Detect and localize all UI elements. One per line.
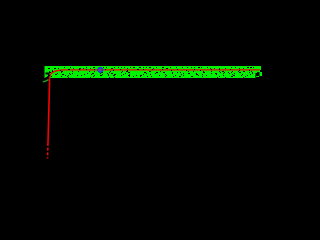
green band right-end: notch top stub <box>256 72 258 73</box>
red branch: dashed tail <box>47 148 49 159</box>
green periodic-orbit band: main slab <box>45 66 256 78</box>
red branch: left knee curve <box>50 70 64 80</box>
red branch: descending segment <box>48 80 50 147</box>
blue open-circle marker: outer rim <box>98 67 103 72</box>
green left-end lower patch <box>46 75 49 78</box>
green band right-end: upper extension <box>256 66 262 70</box>
black notch at band bottom-left <box>46 73 50 79</box>
blue open-circle marker: inner ring <box>98 68 102 72</box>
green wisp below band left end <box>43 80 49 82</box>
green band right-end: mid extension <box>256 70 261 72</box>
red steady-state branch: horizontal segment <box>64 69 260 71</box>
green band right-end: hook <box>260 72 263 76</box>
black stipple dots on band <box>47 67 256 78</box>
green band right-end: below-notch ledge <box>256 76 260 77</box>
